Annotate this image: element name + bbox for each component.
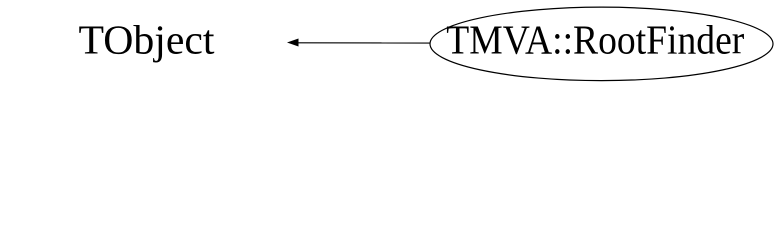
- wire (inheritance arrow shaft): [297, 42, 431, 44]
- svg-text:TObject: TObject: [79, 17, 216, 63]
- svg-text:TMVA::RootFinder: TMVA::RootFinder: [446, 17, 744, 63]
- arrowhead: [287, 39, 299, 47]
- ellipse node TMVA::RootFinder: [430, 7, 773, 81]
